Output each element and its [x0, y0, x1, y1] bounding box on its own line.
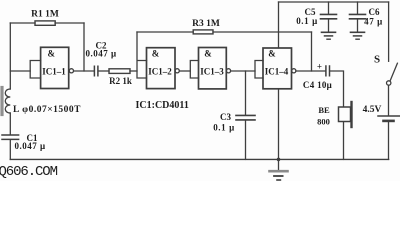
svg-text:R2 1k: R2 1k — [109, 76, 132, 86]
svg-text:&: & — [268, 49, 276, 59]
wire IC1-4 output to C4 — [296, 70, 325, 72]
svg-text:0.1 μ: 0.1 μ — [213, 123, 235, 133]
svg-text:IC1–1: IC1–1 — [42, 67, 66, 77]
wire IC1-3 output drop to C3 — [245, 71, 247, 115]
node junction dot on bottom rail — [277, 158, 281, 162]
wire C2 to R2 — [99, 70, 109, 72]
svg-text:IC1–3: IC1–3 — [200, 67, 224, 77]
ground main symbol — [278, 159, 280, 170]
svg-text:R1 1M: R1 1M — [31, 10, 59, 20]
inductor L coil — [5, 89, 10, 113]
svg-text:Q606.COM: Q606.COM — [0, 164, 58, 180]
svg-text:L φ0.07×1500T: L φ0.07×1500T — [13, 105, 81, 115]
svg-text:0.047 μ: 0.047 μ — [14, 141, 45, 151]
switch S lever — [390, 63, 397, 81]
svg-text:800: 800 — [317, 117, 330, 127]
wire top supply rail — [279, 1, 389, 3]
op-amp U1 gate IC1-1 box — [41, 47, 69, 88]
wire IC1-4 ground drop — [278, 89, 280, 160]
svg-text:C4 10μ: C4 10μ — [303, 80, 332, 90]
wire C3 to bottom rail — [245, 121, 247, 160]
resistor R3 — [193, 30, 213, 34]
wire R3 right drop to output node — [311, 32, 313, 71]
capacitor C4 plates — [326, 66, 330, 76]
resistor R1 — [35, 21, 55, 25]
svg-text:0.047 μ: 0.047 μ — [85, 49, 116, 59]
wire IC1-4 Vdd drop — [278, 2, 280, 48]
node IC1-4 input bracket — [255, 61, 263, 79]
capacitor C6 — [357, 2, 359, 14]
wire R2 to IC1-2 bracket — [130, 70, 137, 72]
wire switch to battery — [388, 85, 390, 115]
capacitor C5 — [328, 2, 330, 14]
wire IC1-2 output to IC1-3 — [179, 70, 190, 72]
svg-text:+: + — [317, 62, 322, 72]
wire right rail to switch — [388, 2, 390, 61]
capacitor C2 — [94, 66, 98, 75]
capacitor C3 — [236, 115, 255, 120]
op-amp U2 gate IC1-2 box — [147, 48, 176, 89]
svg-text:C3: C3 — [220, 112, 231, 122]
svg-text:R3 1M: R3 1M — [192, 19, 220, 29]
inductor L core bar — [0, 88, 3, 115]
svg-text:BE: BE — [318, 105, 330, 115]
resistor R2 — [109, 69, 130, 74]
svg-text:0.1 μ: 0.1 μ — [296, 16, 318, 26]
earphone BE 800 — [339, 107, 351, 122]
svg-text:4.5V: 4.5V — [363, 105, 382, 115]
node IC1-2 input bracket with R3 riser — [137, 32, 147, 78]
svg-text:IC1:CD4011: IC1:CD4011 — [136, 100, 189, 111]
wire R1 right vertical — [83, 23, 85, 71]
battery BT 4.5V — [378, 115, 400, 117]
svg-text:&: & — [152, 49, 160, 59]
wire IC1-3 output to IC1-4 — [231, 70, 255, 72]
op-amp U3 gate IC1-3 box — [199, 48, 227, 89]
svg-text:S: S — [374, 54, 380, 66]
wire IC1-1 input — [10, 70, 30, 72]
svg-text:&: & — [48, 49, 56, 59]
wire C1 to bottom rail — [9, 140, 11, 159]
svg-text:IC1–2: IC1–2 — [148, 67, 172, 77]
svg-text:47 μ: 47 μ — [364, 17, 383, 27]
switch S contact circle — [387, 81, 391, 85]
svg-text:C6: C6 — [369, 7, 380, 17]
ground for C5 — [322, 31, 336, 33]
wire left rail top segment — [9, 23, 11, 89]
ground for C6 — [351, 31, 365, 33]
wire C4 to BE — [330, 71, 343, 107]
wire battery to bottom rail — [388, 122, 390, 159]
op-amp U4 gate IC1-4 box — [263, 48, 292, 89]
wire top-left feedback run — [10, 22, 84, 24]
node IC1-3 input bracket — [190, 61, 198, 79]
wire BE to bottom rail — [343, 122, 345, 160]
svg-text:&: & — [204, 49, 212, 59]
wire R3 feedback run — [137, 31, 312, 33]
wire IC1-1 output to C2 — [74, 70, 94, 72]
wire rail coil to C1 — [9, 113, 11, 134]
bottom rail — [10, 158, 388, 160]
capacitor C1 — [2, 135, 19, 139]
svg-text:IC1–4: IC1–4 — [265, 67, 289, 77]
node IC1-1 input bracket — [30, 61, 40, 79]
